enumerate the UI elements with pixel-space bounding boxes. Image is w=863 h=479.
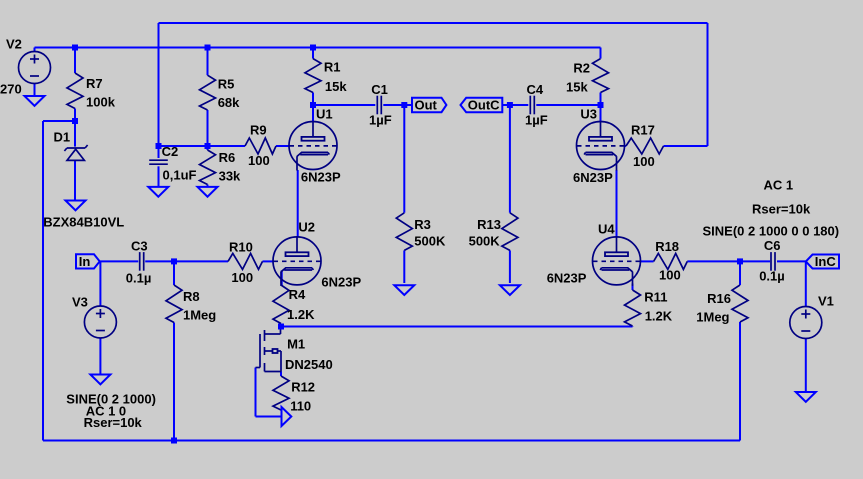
svg-text:C6: C6: [764, 238, 781, 253]
svg-text:R6: R6: [219, 150, 236, 165]
svg-text:500K: 500K: [469, 234, 501, 249]
svg-text:V3: V3: [72, 295, 88, 310]
svg-text:U4: U4: [598, 222, 615, 237]
svg-text:68k: 68k: [218, 95, 240, 110]
svg-text:U1: U1: [316, 107, 333, 122]
svg-text:6N23P: 6N23P: [301, 170, 341, 185]
svg-text:C3: C3: [131, 239, 148, 254]
svg-text:500K: 500K: [414, 234, 446, 249]
svg-text:R18: R18: [655, 239, 679, 254]
svg-text:15k: 15k: [566, 80, 588, 95]
svg-text:15k: 15k: [325, 79, 347, 94]
svg-text:100: 100: [633, 154, 655, 169]
svg-text:V1: V1: [818, 294, 834, 309]
svg-text:0.1µ: 0.1µ: [126, 271, 152, 286]
svg-text:Rser=10k: Rser=10k: [84, 415, 143, 430]
svg-text:1.2K: 1.2K: [287, 307, 315, 322]
svg-text:U3: U3: [580, 107, 597, 122]
svg-text:V2: V2: [6, 36, 22, 51]
svg-text:0.1µ: 0.1µ: [759, 269, 785, 284]
svg-text:U2: U2: [298, 220, 315, 235]
svg-text:100: 100: [248, 153, 270, 168]
svg-text:R9: R9: [250, 123, 267, 138]
svg-text:R2: R2: [573, 61, 590, 76]
svg-text:DN2540: DN2540: [285, 357, 333, 372]
svg-text:R1: R1: [324, 60, 341, 75]
svg-text:D1: D1: [54, 130, 71, 145]
svg-text:C1: C1: [371, 82, 388, 97]
svg-text:0,1uF: 0,1uF: [163, 167, 197, 182]
svg-text:SINE(0 2 1000 0 0 180): SINE(0 2 1000 0 0 180): [703, 224, 840, 239]
svg-text:R8: R8: [183, 289, 200, 304]
svg-text:1µF: 1µF: [369, 113, 392, 128]
svg-text:InC: InC: [815, 254, 837, 269]
svg-text:R17: R17: [631, 123, 655, 138]
svg-text:R5: R5: [218, 77, 235, 92]
svg-text:C2: C2: [162, 144, 179, 159]
svg-text:C4: C4: [527, 82, 544, 97]
svg-text:1.2K: 1.2K: [645, 309, 673, 324]
svg-text:33k: 33k: [219, 169, 241, 184]
svg-text:R13: R13: [477, 217, 501, 232]
svg-text:1Meg: 1Meg: [183, 308, 216, 323]
svg-text:6N23P: 6N23P: [321, 275, 361, 290]
svg-text:R10: R10: [229, 240, 253, 255]
svg-text:R16: R16: [707, 291, 731, 306]
svg-text:R4: R4: [289, 287, 306, 302]
svg-text:Out: Out: [415, 98, 438, 113]
svg-text:M1: M1: [287, 337, 305, 352]
svg-text:1µF: 1µF: [525, 113, 548, 128]
svg-text:100k: 100k: [86, 95, 116, 110]
svg-text:R12: R12: [291, 380, 315, 395]
svg-text:R7: R7: [86, 76, 103, 91]
svg-text:6N23P: 6N23P: [547, 271, 587, 286]
svg-text:110: 110: [290, 399, 311, 414]
svg-text:R3: R3: [414, 217, 431, 232]
svg-text:BZX84B10VL: BZX84B10VL: [43, 215, 124, 230]
svg-text:AC 1: AC 1: [764, 178, 794, 193]
svg-text:OutC: OutC: [468, 98, 500, 113]
svg-text:Rser=10k: Rser=10k: [752, 202, 811, 217]
svg-text:R11: R11: [644, 290, 667, 305]
svg-text:100: 100: [231, 270, 253, 285]
svg-text:270: 270: [0, 82, 22, 97]
svg-text:In: In: [79, 254, 91, 269]
svg-text:100: 100: [659, 268, 681, 283]
svg-text:6N23P: 6N23P: [573, 170, 613, 185]
svg-text:1Meg: 1Meg: [696, 310, 729, 325]
